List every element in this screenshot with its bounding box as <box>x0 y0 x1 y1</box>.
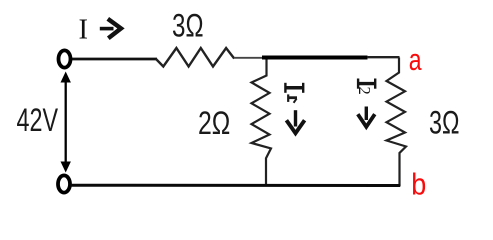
wire top right <box>367 56 400 58</box>
svg-text:42V: 42V <box>17 102 59 138</box>
label I1 (rotated serif I: stem + serif bars) <box>285 83 303 93</box>
wire top mid thin <box>234 57 263 59</box>
voltage source arrowhead up <box>61 72 71 83</box>
bottom wire <box>71 184 401 187</box>
svg-text:b: b <box>411 167 426 202</box>
label I2 subscript 2 (rotated) <box>355 87 374 95</box>
svg-text:a: a <box>409 42 422 77</box>
current arrow I2 (down) <box>358 107 375 127</box>
current arrow I (top) <box>100 19 121 38</box>
label I2 (rotated serif I: stem + serif bars) <box>358 79 375 89</box>
label I1 subscript 1 (rotated, hand-drawn) <box>288 94 297 102</box>
wire top left <box>71 58 157 61</box>
voltage source arrowhead down <box>61 162 71 173</box>
resistor R right 3ohm (vertical) <box>387 58 407 187</box>
current arrow I1 (down) <box>286 110 304 133</box>
resistor R top 3ohm zigzag <box>156 48 234 67</box>
svg-text:2: 2 <box>355 87 374 95</box>
terminal bottom-left <box>58 175 70 192</box>
svg-text:2Ω: 2Ω <box>198 105 230 141</box>
svg-text:3Ω: 3Ω <box>172 7 204 43</box>
resistor R middle 2ohm (vertical) <box>252 60 272 186</box>
svg-text:I: I <box>79 15 89 46</box>
svg-text:3Ω: 3Ω <box>429 105 460 141</box>
terminal top-left <box>59 50 71 67</box>
voltage source 42V double-headed arrow shaft <box>65 79 67 165</box>
wire top mid thick <box>262 56 368 60</box>
